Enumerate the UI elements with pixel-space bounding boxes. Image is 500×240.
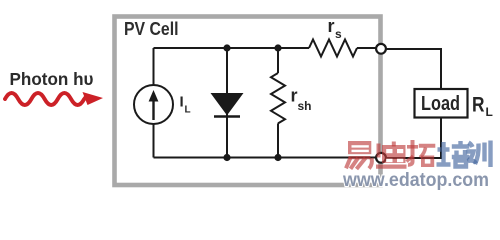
current source IL (134, 85, 173, 124)
svg-text:PV Cell: PV Cell (124, 19, 179, 39)
resistor Rsh (271, 48, 285, 158)
svg-text:sh: sh (298, 99, 312, 113)
char tuo (red) (407, 140, 436, 167)
wire load bottom to bottom rail (386, 118, 441, 158)
svg-text:r: r (328, 16, 335, 36)
label PV Cell (124, 19, 179, 39)
wire below current source (153, 124, 155, 158)
diode D1 (212, 48, 243, 158)
label Photon hv (10, 69, 94, 89)
node rsh bottom (274, 154, 281, 161)
resistor Rs zigzag (309, 40, 357, 57)
node diode top (223, 44, 230, 51)
char pei (blue) (437, 141, 470, 167)
svg-text:r: r (291, 86, 298, 106)
PV cell box (115, 17, 381, 186)
photon wavy arrow (5, 92, 103, 105)
wire left drop from current source (153, 48, 155, 85)
svg-text:L: L (185, 105, 191, 116)
char yi (red) (346, 141, 372, 169)
svg-text:s: s (335, 27, 342, 41)
svg-text:Photon hυ: Photon hυ (10, 69, 94, 89)
char di (red) (376, 142, 407, 167)
svg-text:www.edatop.com: www.edatop.com (342, 169, 489, 191)
node rsh top (274, 44, 281, 51)
wire bottom rail (154, 157, 377, 159)
svg-text:R: R (472, 94, 485, 117)
label IL (180, 94, 191, 116)
watermark chinese characters (drawn strokes) (346, 140, 491, 169)
terminal top (open circle) (376, 44, 386, 54)
label rs (328, 16, 343, 41)
watermark url www.edatop.com (342, 169, 489, 191)
load box (415, 89, 468, 118)
terminal bottom (open circle) (376, 153, 386, 163)
label rsh (291, 86, 312, 114)
wire top rail (154, 47, 310, 49)
svg-text:Load: Load (421, 93, 460, 115)
label RL (472, 94, 493, 120)
wire rs to terminal (357, 47, 376, 49)
svg-text:L: L (486, 105, 493, 119)
node diode bottom (223, 154, 230, 161)
char xun (blue) (467, 141, 491, 168)
svg-text:I: I (180, 94, 184, 111)
wire top right to load (386, 49, 441, 88)
